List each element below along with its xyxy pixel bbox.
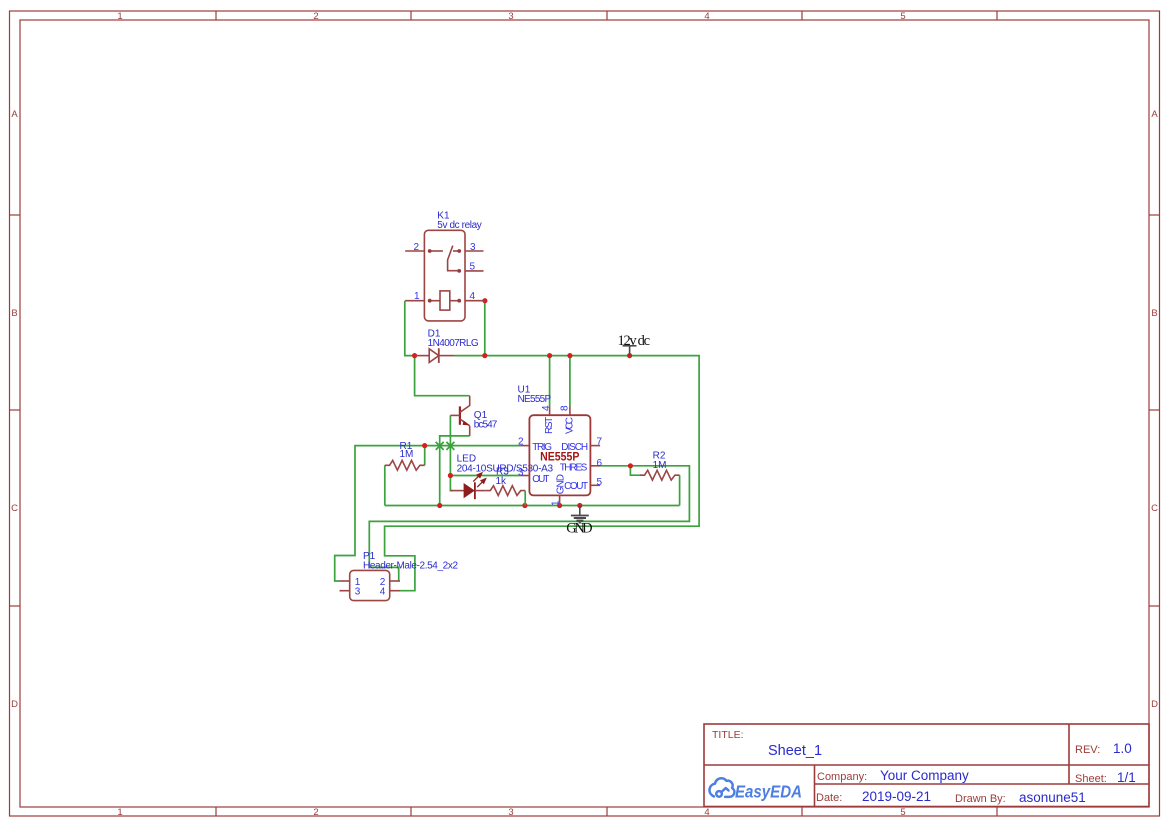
svg-text:2: 2 <box>414 242 420 253</box>
svg-text:12v dc: 12v dc <box>618 333 651 349</box>
junction U1 VCC on 12v rail <box>567 353 572 358</box>
svg-text:A: A <box>11 109 18 120</box>
SCHEMATIC <box>335 211 699 601</box>
svg-text:4: 4 <box>380 587 386 598</box>
svg-text:3: 3 <box>508 11 513 22</box>
svg-text:EasyEDA: EasyEDA <box>735 782 802 802</box>
svg-text:1M: 1M <box>653 460 667 471</box>
relay K1 <box>405 211 485 321</box>
svg-text:NE555P: NE555P <box>518 394 552 405</box>
svg-text:REV:: REV: <box>1075 744 1100 756</box>
junction D1 anode node <box>412 353 417 358</box>
svg-text:Sheet:: Sheet: <box>1075 773 1107 785</box>
svg-text:2019-09-21: 2019-09-21 <box>862 789 931 804</box>
svg-text:5: 5 <box>900 807 905 818</box>
junction 12v flag node <box>627 353 632 358</box>
IC U1 NE555P (555 timer) <box>518 385 603 506</box>
svg-text:TITLE:: TITLE: <box>712 729 744 741</box>
svg-text:THRES: THRES <box>560 463 588 474</box>
resistor R1 <box>385 441 425 470</box>
junction OUT / Q1 base / LED node <box>448 473 453 478</box>
frame column numbers bottom <box>117 807 905 818</box>
svg-text:B: B <box>1151 308 1157 319</box>
junction TRIG / R1 node <box>422 443 427 448</box>
svg-text:C: C <box>11 503 18 514</box>
ground GND <box>566 506 592 537</box>
svg-text:B: B <box>11 308 17 319</box>
svg-text:Header-Male-2.54_2x2: Header-Male-2.54_2x2 <box>363 561 458 572</box>
no-connect cross 1 <box>436 442 444 450</box>
svg-text:A: A <box>1151 109 1158 120</box>
title block <box>704 724 1149 807</box>
P1 pin numbers 1 2 3 4 <box>355 577 386 598</box>
wire R3 right to ground rail <box>524 491 526 506</box>
wire K1 pin4 down to 12v rail <box>484 301 486 356</box>
svg-text:1/1: 1/1 <box>1117 770 1136 785</box>
svg-text:RST: RST <box>544 417 555 434</box>
wire TRIG dot down to R1 <box>424 446 426 466</box>
svg-text:Drawn By:: Drawn By: <box>955 793 1006 805</box>
frame column numbers top <box>117 11 905 22</box>
junction U1 GND pin on ground rail <box>557 503 562 508</box>
svg-text:1: 1 <box>550 500 561 506</box>
svg-text:bc547: bc547 <box>474 420 498 431</box>
junction R3 on ground rail <box>522 503 527 508</box>
transistor Q1 <box>450 396 497 436</box>
U1 pin numbers 2 3 7 6 5 4 8 1 <box>518 405 603 506</box>
svg-text:4: 4 <box>541 405 552 411</box>
svg-text:5: 5 <box>900 11 905 22</box>
junction D1 cathode / K1 pin4 node <box>482 353 487 358</box>
wire RST pin4 to 12v rail <box>549 356 551 407</box>
svg-text:2: 2 <box>313 11 318 22</box>
voltage flag 12v dc <box>618 333 651 356</box>
svg-text:5: 5 <box>597 477 603 488</box>
svg-text:2: 2 <box>313 807 318 818</box>
wire TRIG net to P1 pin1 <box>335 446 521 581</box>
svg-text:GND: GND <box>556 474 567 494</box>
svg-text:4: 4 <box>704 807 709 818</box>
svg-text:Date:: Date: <box>816 792 842 804</box>
resistor R2 <box>640 451 680 480</box>
wire ground rail <box>385 505 680 507</box>
svg-text:VCC: VCC <box>564 417 575 434</box>
svg-text:7: 7 <box>597 436 603 447</box>
junction GND symbol on ground rail <box>577 503 582 508</box>
wire Q1 base to OUT and LED <box>450 415 452 490</box>
svg-text:GND: GND <box>566 521 592 537</box>
wire Q1 emitter to ground rail <box>440 436 470 506</box>
svg-text:6: 6 <box>597 458 603 469</box>
wire VCC pin8 to 12v rail <box>569 356 571 407</box>
svg-text:Sheet_1: Sheet_1 <box>768 743 822 759</box>
svg-text:C: C <box>1151 503 1158 514</box>
svg-text:D: D <box>11 699 18 710</box>
svg-text:Company:: Company: <box>817 771 867 783</box>
svg-text:4: 4 <box>470 291 476 302</box>
svg-text:1N4007RLG: 1N4007RLG <box>428 338 479 349</box>
wire OUT pin3 <box>450 475 520 477</box>
no-connect cross 2 <box>446 442 454 450</box>
junction K1 pin4 <box>482 298 487 303</box>
svg-text:8: 8 <box>560 405 571 411</box>
wire THRES dot down to R2 <box>630 466 641 475</box>
svg-text:3: 3 <box>470 242 476 253</box>
svg-text:4: 4 <box>704 11 709 22</box>
svg-text:1: 1 <box>117 11 122 22</box>
LED emission arrows <box>473 473 485 487</box>
K1 pin numbers 2 3 5 1 4 <box>414 242 477 302</box>
svg-text:3: 3 <box>508 807 513 818</box>
svg-text:3: 3 <box>355 587 361 598</box>
svg-text:D: D <box>1151 699 1158 710</box>
frame row letters <box>11 109 1158 710</box>
svg-text:NE555P: NE555P <box>540 450 579 464</box>
svg-text:3: 3 <box>518 467 524 478</box>
junction Q1 emitter on ground rail <box>437 503 442 508</box>
wire THRES net to P1 pin2 <box>369 466 689 581</box>
wire D1 anode to Q1 collector <box>415 356 470 396</box>
junction U1 RST on 12v rail <box>547 353 552 358</box>
svg-text:1: 1 <box>117 807 122 818</box>
wire 12v main rail <box>385 356 699 591</box>
svg-text:1: 1 <box>414 291 420 302</box>
LED <box>450 454 553 500</box>
wire R2 right to ground rail <box>679 475 681 505</box>
svg-text:1M: 1M <box>400 449 414 460</box>
wire R1 left to ground rail <box>384 465 386 505</box>
EasyEDA logo <box>710 778 802 801</box>
resistor R3 1k <box>486 467 526 506</box>
svg-text:OUT: OUT <box>532 474 549 485</box>
svg-text:5v dc relay: 5v dc relay <box>437 220 482 231</box>
svg-text:5: 5 <box>470 261 476 272</box>
svg-text:1.0: 1.0 <box>1113 741 1132 756</box>
junction THRES / R2 node <box>628 463 633 468</box>
svg-text:Your Company: Your Company <box>880 768 969 783</box>
svg-text:2: 2 <box>518 437 524 448</box>
svg-text:1k: 1k <box>496 476 508 487</box>
U1 pin names TRIG DISCH THRES OUT COUT RST VCC GND <box>532 417 588 495</box>
header P1 <box>340 551 459 601</box>
wire K1 pin1 to D1 anode <box>405 301 415 356</box>
svg-text:COUT: COUT <box>564 481 588 492</box>
svg-text:asonune51: asonune51 <box>1019 790 1086 805</box>
diode D1 <box>415 329 479 364</box>
